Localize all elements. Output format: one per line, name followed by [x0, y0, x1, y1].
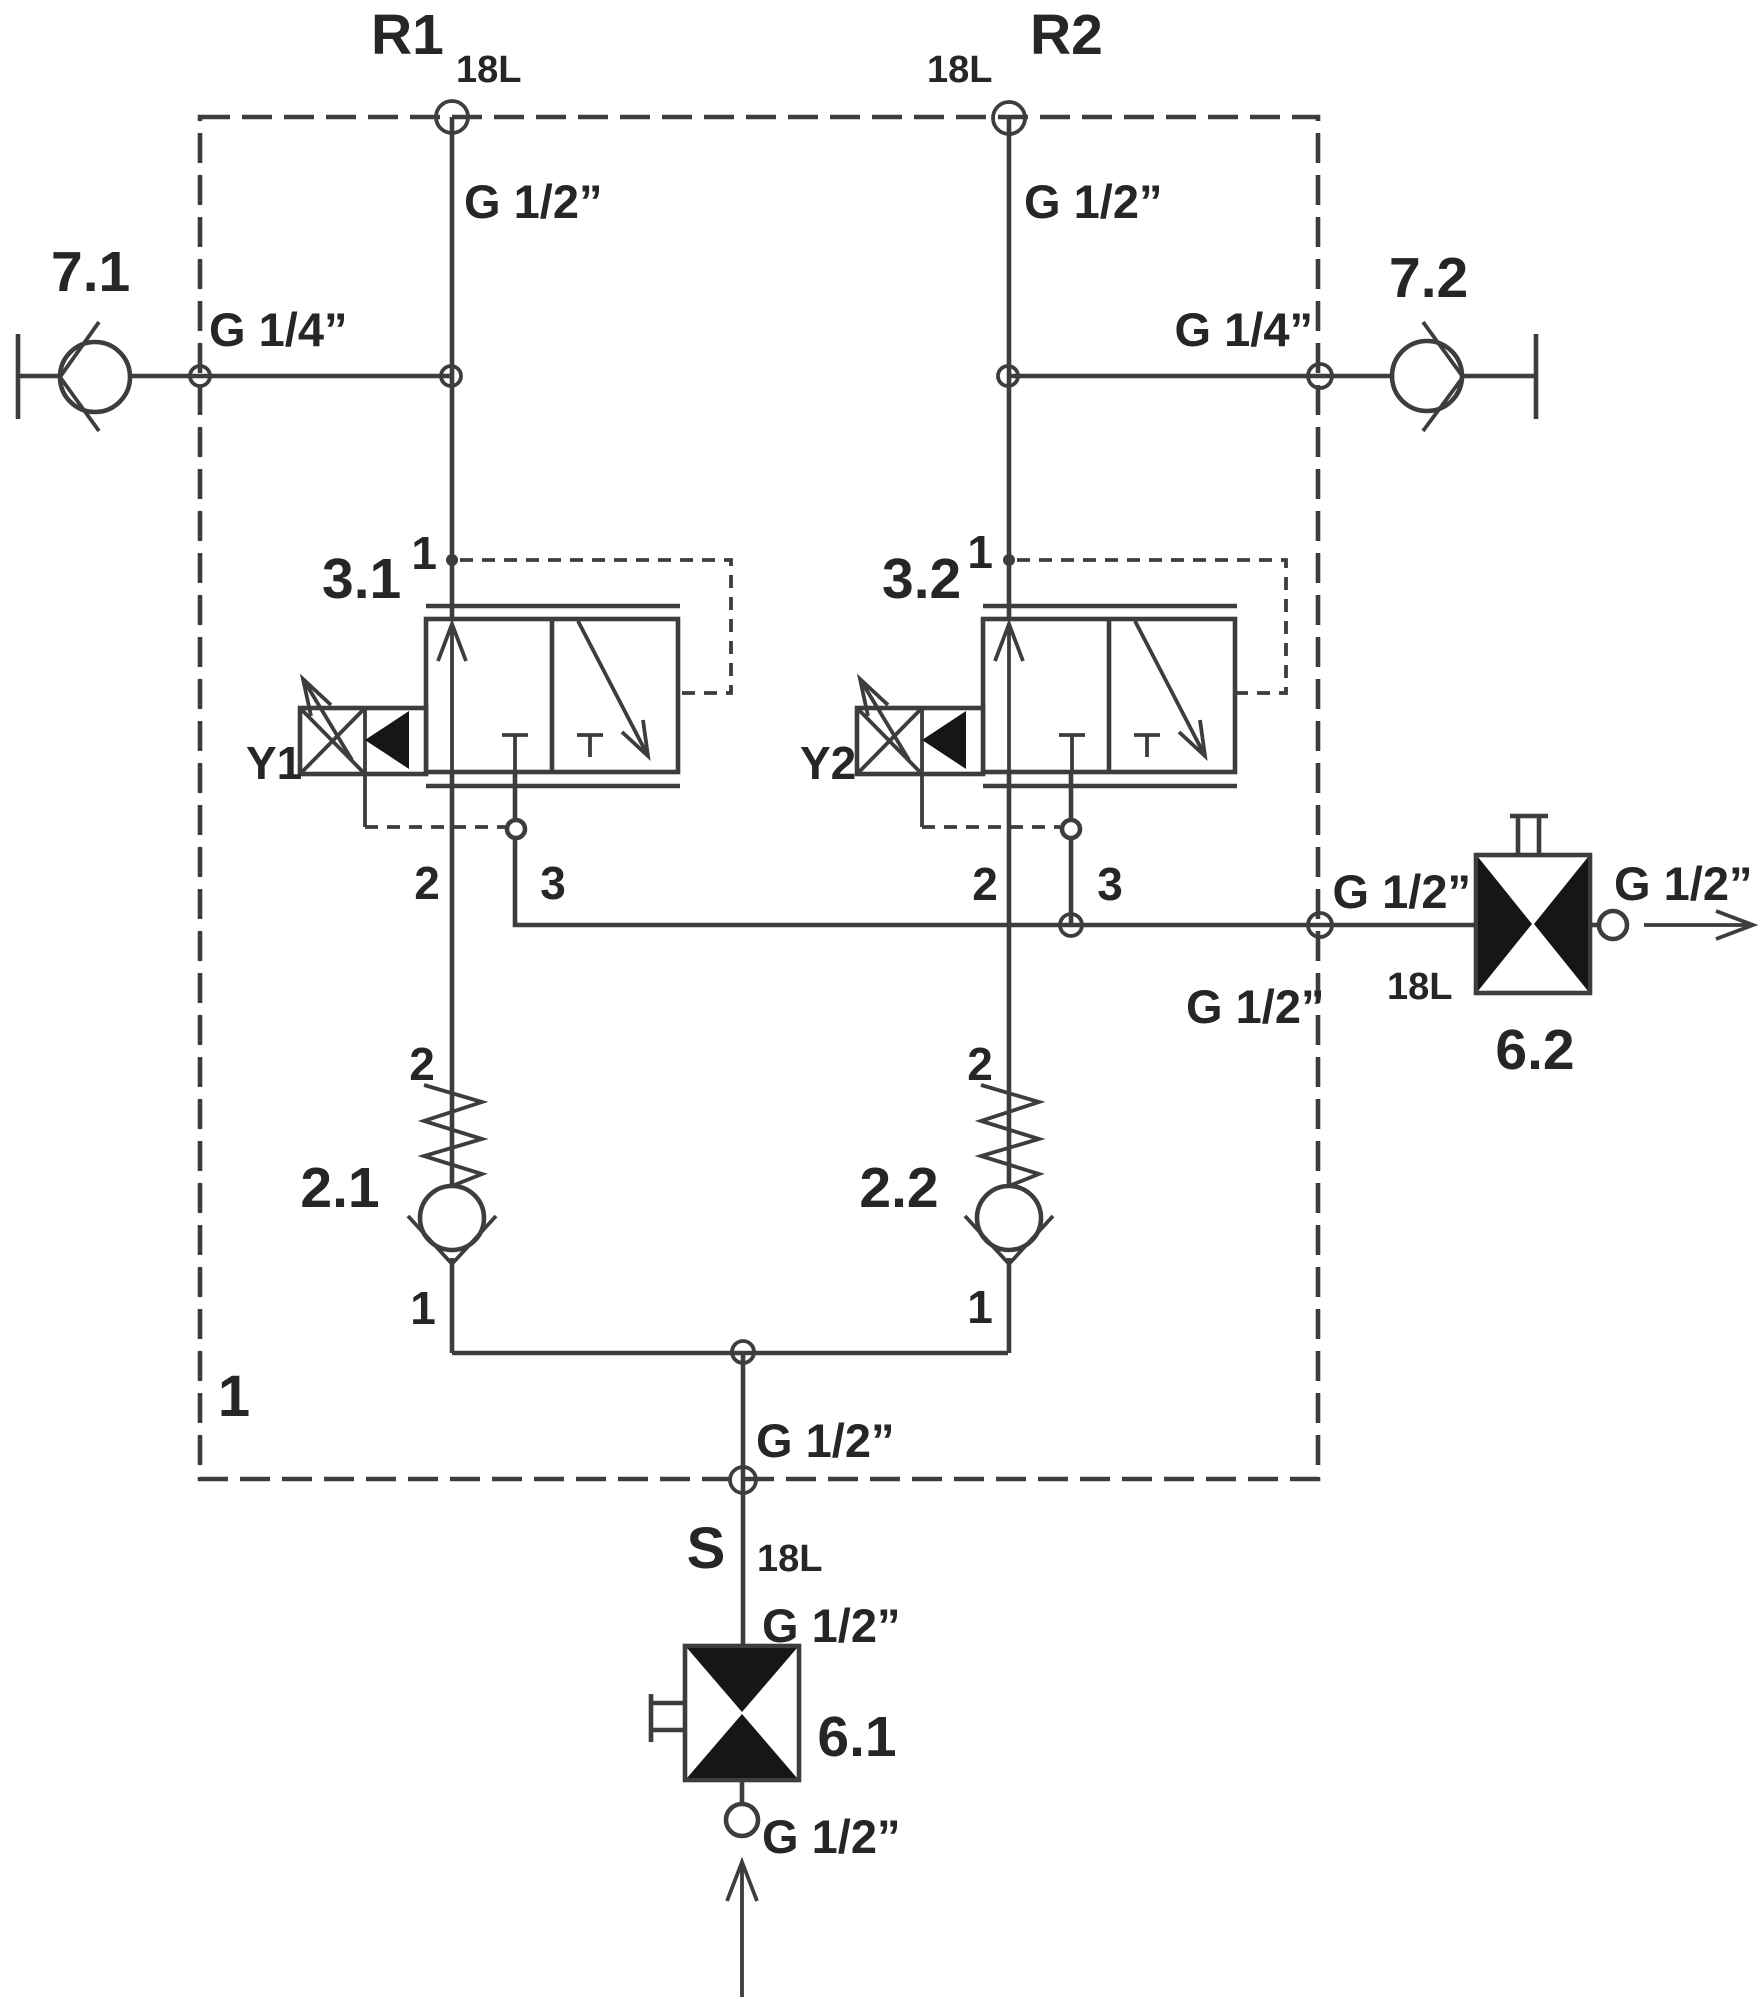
svg-text:G 1/2”: G 1/2”	[464, 175, 602, 228]
wire gauge line left G 1/4	[18, 374, 452, 379]
svg-text:18L: 18L	[456, 49, 521, 91]
valve 3.1 pilot triangle	[365, 711, 409, 769]
bulkhead pass circle right border	[1308, 364, 1332, 388]
wire center drop to port S	[741, 1353, 746, 1650]
node collector junction	[1060, 914, 1082, 936]
svg-text:3.1: 3.1	[322, 547, 401, 611]
svg-text:G 1/4”: G 1/4”	[1175, 303, 1313, 356]
node junction R2 gauge	[998, 366, 1018, 386]
svg-text:G 1/2”: G 1/2”	[1024, 175, 1162, 228]
valve 3.1 pilot line (dashed)	[460, 560, 731, 693]
wire below 6.1	[740, 1780, 745, 1804]
valve 3.2 division	[1107, 619, 1112, 772]
wire gauge line right G 1/4	[1009, 374, 1536, 379]
wire R1 lower segment	[450, 1258, 455, 1353]
svg-text:R1: R1	[371, 3, 444, 67]
valve 3.1 solenoid pilot drop	[363, 774, 367, 827]
valve 3.1 division	[550, 619, 555, 772]
valve 3.2 blocked port T (left cell)	[1059, 735, 1085, 772]
wire R2 lower segment	[1007, 1258, 1012, 1353]
valve 6.1 stem	[651, 1694, 685, 1742]
svg-text:G 1/2”: G 1/2”	[1614, 857, 1752, 910]
valve 3.2 port 1 node	[1003, 554, 1015, 566]
svg-text:2: 2	[414, 857, 440, 909]
svg-text:G 1/2”: G 1/2”	[756, 1414, 894, 1467]
svg-text:2: 2	[972, 858, 998, 910]
valve 3.1 port 1 node	[446, 554, 458, 566]
solenoid Y1 proportional arrow	[303, 679, 352, 760]
svg-text:1: 1	[410, 1282, 436, 1334]
bulkhead pass circle port S	[730, 1467, 756, 1493]
enclosure manifold block 1 (dashed)	[200, 117, 1318, 1479]
check valve 2.2	[965, 1186, 1053, 1264]
wire valve 3.2 port-3 drop	[1069, 772, 1074, 925]
wire bottom join horizontal	[452, 1351, 1008, 1356]
svg-text:2.1: 2.1	[300, 1156, 379, 1220]
valve 3.2 body	[983, 619, 1235, 772]
valve 3.2 pilot tap circle	[1062, 820, 1080, 838]
solenoid Y2 cross	[857, 708, 922, 774]
svg-text:6.2: 6.2	[1495, 1018, 1574, 1082]
svg-text:G 1/2”: G 1/2”	[1333, 865, 1471, 918]
spring 2.2	[981, 1085, 1039, 1186]
svg-text:1: 1	[967, 526, 993, 578]
node bottom join	[732, 1341, 754, 1363]
svg-text:7.1: 7.1	[51, 240, 130, 304]
solenoid Y2 division	[920, 708, 924, 774]
check valve 2.1	[408, 1186, 496, 1264]
svg-text:2.2: 2.2	[859, 1156, 938, 1220]
svg-text:1: 1	[967, 1281, 993, 1333]
bulkhead pass circle collector	[1308, 913, 1332, 937]
check valve 7.1	[60, 322, 130, 431]
port circle inlet	[726, 1804, 758, 1836]
svg-text:18L: 18L	[927, 49, 992, 91]
valve 3.1 bottom rail	[426, 784, 680, 789]
node junction R1 gauge	[441, 366, 461, 386]
spring 2.1	[424, 1085, 482, 1186]
wire R1 vertical	[450, 117, 455, 1186]
wire R2 vertical	[1007, 118, 1012, 1186]
svg-text:Y1: Y1	[246, 737, 302, 789]
svg-text:18L: 18L	[757, 1538, 822, 1580]
svg-text:G 1/2”: G 1/2”	[762, 1810, 900, 1863]
svg-text:G 1/2”: G 1/2”	[1186, 980, 1324, 1033]
svg-text:1: 1	[411, 527, 437, 579]
valve 3.1 blocked port T (left cell)	[502, 735, 528, 772]
svg-text:R2: R2	[1030, 3, 1103, 67]
svg-text:G 1/4”: G 1/4”	[209, 303, 347, 356]
solenoid Y2	[857, 708, 983, 774]
svg-text:2: 2	[967, 1038, 993, 1090]
svg-text:3.2: 3.2	[882, 547, 961, 611]
solenoid Y1 division	[363, 708, 367, 774]
shut-off valve 6.1	[685, 1646, 799, 1780]
terminator bar right	[1534, 334, 1539, 419]
port R1	[436, 101, 468, 133]
terminator bar left	[16, 334, 21, 419]
shut-off valve 6.2	[1476, 855, 1590, 993]
valve 3.1 top rail	[426, 604, 680, 609]
inlet arrow S	[727, 1862, 757, 1997]
valve 3.1 pilot dashed link	[365, 825, 505, 829]
svg-text:6.1: 6.1	[817, 1705, 896, 1769]
valve 3.2 pilot triangle	[922, 711, 966, 769]
valve 3.2 pilot line (dashed)	[1017, 560, 1286, 693]
port R2	[993, 102, 1025, 134]
valve 3.1 flow arrow (left cell)	[438, 624, 466, 772]
svg-text:2: 2	[409, 1038, 435, 1090]
node G 1/4 left on border	[190, 366, 210, 386]
valve 6.2 stem	[1510, 816, 1548, 855]
svg-text:3: 3	[1097, 858, 1123, 910]
solenoid Y1 cross	[300, 708, 365, 774]
valve 3.1 crossover arrow (right cell)	[578, 621, 648, 756]
svg-text:7.2: 7.2	[1389, 246, 1468, 310]
valve 3.1 blocked port T (right cell)	[577, 735, 603, 757]
svg-text:3: 3	[540, 857, 566, 909]
wire 6.2 outlet stub	[1590, 923, 1601, 928]
check valve 7.2	[1392, 322, 1463, 431]
valve 3.2 bottom rail	[983, 784, 1237, 789]
svg-text:Y2: Y2	[800, 737, 856, 789]
valve 3.2 pilot dashed link	[922, 825, 1060, 829]
valve 3.2 solenoid pilot drop	[920, 774, 924, 827]
svg-text:18L: 18L	[1387, 966, 1452, 1008]
svg-text:1: 1	[218, 1364, 250, 1429]
solenoid Y2 proportional arrow	[860, 679, 909, 760]
valve 3.2 blocked port T (right cell)	[1134, 735, 1160, 757]
valve 3.2 top rail	[983, 604, 1237, 609]
valve 3.2 flow arrow (left cell)	[995, 624, 1023, 772]
valve 3.1 body	[426, 619, 678, 772]
valve 3.1 pilot tap circle	[507, 820, 525, 838]
wire port-3 collector to valve 6.2	[515, 772, 1476, 925]
valve 3.2 crossover arrow (right cell)	[1135, 621, 1205, 756]
solenoid Y1	[300, 708, 426, 774]
svg-text:S: S	[687, 1516, 726, 1581]
port circle 6.2 outlet	[1599, 911, 1627, 939]
outlet arrow 6.2	[1644, 911, 1753, 939]
